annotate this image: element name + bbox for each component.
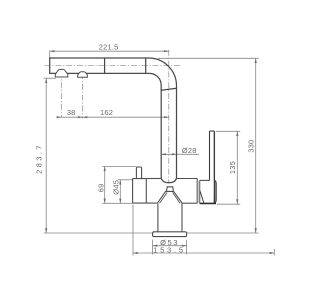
svg-text:330: 330 <box>247 140 256 153</box>
svg-text:Ø45: Ø45 <box>111 180 120 195</box>
svg-text:162: 162 <box>100 108 113 117</box>
svg-text:283.7: 283.7 <box>35 143 44 174</box>
svg-text:221.5: 221.5 <box>99 43 119 52</box>
svg-text:153.5: 153.5 <box>153 245 186 254</box>
svg-text:135: 135 <box>228 161 237 174</box>
svg-text:38: 38 <box>67 108 76 117</box>
svg-text:69: 69 <box>97 184 106 193</box>
svg-text:Ø28: Ø28 <box>182 146 197 155</box>
